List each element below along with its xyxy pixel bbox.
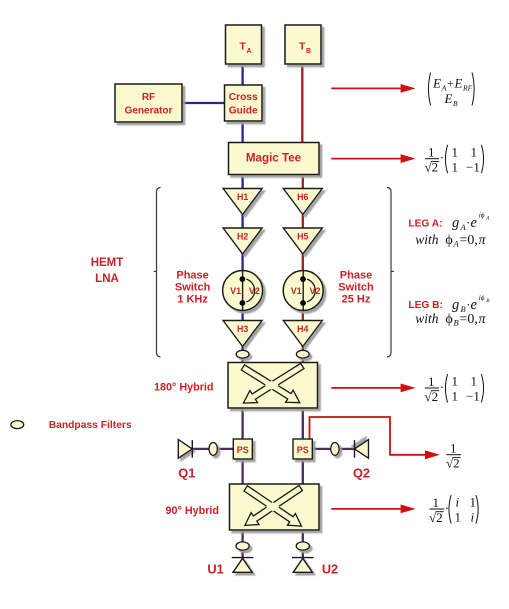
wire PS left to 90 hybrid (purple) — [241, 458, 243, 485]
bandpass filter F3 — [209, 443, 217, 456]
red annotation arrow at TA/TB level — [331, 84, 415, 93]
red annotation arrow at 90 hybrid level — [331, 505, 415, 514]
svg-text:A: A — [485, 215, 490, 221]
svg-text:T: T — [239, 40, 246, 52]
wire filter F3 to PS left (purple) — [218, 448, 235, 450]
box 90 degree hybrid — [230, 484, 320, 530]
amplifier H5 — [283, 228, 322, 254]
wire filter F5 to U1 detector (purple) — [241, 549, 243, 557]
svg-text:Switch: Switch — [175, 282, 211, 294]
amplifier H3 — [223, 321, 262, 347]
wire H6 to H5 (red) — [302, 213, 304, 229]
svg-text:1: 1 — [452, 159, 459, 174]
wire H4 to filter F2 (red) — [302, 345, 304, 352]
phase switch B (25 Hz) with V1 V2 — [283, 271, 323, 311]
svg-text:π: π — [479, 312, 487, 327]
wire RF generator to cross guide (blue) — [181, 102, 225, 104]
svg-text:ϕ: ϕ — [445, 312, 452, 327]
wire H1 to H2 (blue) — [241, 213, 243, 229]
svg-text:i: i — [471, 510, 475, 525]
svg-text:H1: H1 — [237, 192, 248, 202]
formula gB exp(i phi B) — [452, 294, 490, 314]
svg-text:=0,: =0, — [460, 312, 478, 327]
wire PS right to filter F4 (purple) — [312, 448, 332, 450]
svg-text:LEG B:: LEG B: — [408, 300, 443, 311]
svg-text:g: g — [452, 215, 459, 231]
wire filter F2 to 180 hybrid (red) — [302, 356, 304, 364]
svg-text:RF: RF — [462, 84, 473, 93]
svg-text:25 Hz: 25 Hz — [342, 293, 371, 305]
svg-text:Guide: Guide — [229, 106, 258, 117]
box TB (noise source B) — [285, 25, 321, 64]
bandpass filter F6 — [296, 542, 309, 550]
svg-text:A: A — [460, 222, 467, 232]
bandpass filter F5 — [236, 542, 249, 550]
svg-text:1: 1 — [455, 510, 462, 525]
formula 1/sqrt2 times matrix (1 1; 1 -1) at 180 hybrid — [425, 374, 484, 404]
crossed arrow NE-SW inside 180 hybrid — [243, 363, 304, 403]
svg-text:e: e — [471, 297, 478, 313]
wire 180 hybrid to PS right (purple) — [302, 407, 304, 440]
svg-text:1: 1 — [471, 374, 478, 389]
svg-text:1: 1 — [428, 374, 435, 389]
wire PS right to 90 hybrid (purple) — [302, 458, 304, 485]
svg-text:+: + — [447, 76, 454, 90]
detector U2 — [292, 558, 314, 573]
svg-text:−1: −1 — [466, 389, 480, 404]
legend bandpass filter symbol — [11, 421, 24, 429]
wire phase switch A to H3 (blue) — [241, 310, 243, 321]
weave patch at 180 hybrid crossing — [241, 365, 299, 403]
svg-text:Magic Tee: Magic Tee — [246, 152, 302, 165]
red annotation arrow at 180 hybrid level — [331, 384, 415, 393]
formula 1/sqrt2 times matrix (1 1; 1 -1) at magic tee — [425, 144, 484, 174]
svg-text:E: E — [432, 76, 441, 91]
svg-text:H6: H6 — [297, 192, 308, 202]
wire H5 to phase switch B (red) — [302, 253, 304, 271]
svg-text:1: 1 — [452, 389, 459, 404]
formula 1/sqrt2 times matrix (i 1; 1 i) at 90 hybrid — [429, 495, 478, 525]
detector Q2 — [355, 440, 369, 459]
wire 180 hybrid to PS left (purple) — [241, 407, 243, 440]
svg-text:B: B — [453, 99, 458, 108]
svg-text:90° Hybrid: 90° Hybrid — [166, 505, 220, 517]
detector U1 — [232, 558, 254, 573]
svg-text:with: with — [415, 232, 439, 247]
phase switch A (1 KHz) with V1 V2 — [223, 271, 263, 311]
formula vector EA+ERF over EB — [428, 73, 474, 109]
svg-text:i: i — [456, 495, 460, 510]
wire phase switch B to H4 (red) — [302, 310, 304, 321]
svg-text:Phase: Phase — [340, 270, 372, 282]
svg-text:U2: U2 — [322, 562, 338, 577]
svg-text:iϕ: iϕ — [479, 211, 485, 219]
svg-text:HEMT: HEMT — [91, 257, 124, 269]
wire filter F6 to U2 detector (purple) — [302, 549, 304, 557]
wire TA to cross guide (blue) — [241, 63, 243, 86]
crossed arrow NE-SW inside 90 hybrid — [245, 485, 303, 525]
amplifier H1 — [223, 189, 262, 215]
wire filter F1 to 180 hybrid (blue) — [241, 356, 243, 364]
svg-text:·: · — [440, 150, 444, 165]
box PS left (phase shifter) — [233, 439, 252, 459]
wire H3 to filter F1 (blue) — [241, 345, 243, 352]
svg-text:A: A — [453, 239, 460, 249]
svg-text:Switch: Switch — [338, 282, 374, 294]
bracket left of HEMT LNA section — [154, 187, 161, 357]
crossed arrow NW-SE inside 180 hybrid — [241, 365, 299, 403]
svg-text:−1: −1 — [466, 159, 480, 174]
svg-text:1 KHz: 1 KHz — [177, 293, 208, 305]
weave patch at 90 hybrid crossing — [244, 486, 302, 526]
svg-text:Bandpass Filters: Bandpass Filters — [49, 420, 132, 431]
svg-text:ϕ: ϕ — [445, 233, 452, 248]
svg-text:H2: H2 — [237, 232, 248, 242]
label HEMT LNA — [91, 257, 124, 285]
detector Q1 — [178, 440, 192, 459]
svg-text:with: with — [415, 311, 439, 326]
box 180 degree hybrid — [228, 363, 318, 409]
formula with phiA = 0, pi — [415, 232, 486, 249]
amplifier H4 — [283, 321, 322, 347]
svg-text:PS: PS — [237, 445, 249, 455]
svg-text:·: · — [467, 297, 470, 312]
svg-text:·: · — [467, 215, 470, 230]
bandpass filter F2 — [296, 350, 309, 358]
svg-text:Generator: Generator — [125, 106, 173, 117]
svg-text:B: B — [306, 48, 311, 55]
svg-text:PS: PS — [297, 445, 309, 455]
box RF Generator — [115, 84, 182, 122]
wire magic tee to H1 (blue) — [241, 173, 243, 190]
svg-text:180° Hybrid: 180° Hybrid — [154, 381, 214, 393]
svg-text:H3: H3 — [237, 324, 248, 334]
box PS right (phase shifter) — [293, 439, 312, 459]
box Magic Tee — [229, 143, 320, 175]
box TA (noise source A) — [226, 25, 262, 64]
formula gA exp(i phi A) — [452, 211, 490, 232]
wire H2 to phase switch A (blue) — [241, 253, 243, 271]
svg-text:1: 1 — [471, 144, 478, 159]
label Phase Switch 25 Hz — [338, 270, 374, 306]
svg-text:e: e — [471, 215, 478, 231]
svg-text:1: 1 — [452, 144, 459, 159]
arrowhead of elbow annotation — [425, 450, 440, 459]
svg-text:=0,: =0, — [460, 233, 478, 248]
svg-text:A: A — [247, 48, 252, 55]
svg-text:1: 1 — [470, 495, 477, 510]
amplifier H2 — [223, 228, 262, 254]
bracket right of HEMT LNA section — [387, 187, 394, 357]
formula with phiB = 0, pi — [415, 311, 486, 328]
svg-text:Q2: Q2 — [353, 466, 370, 481]
svg-text:H5: H5 — [297, 232, 308, 242]
svg-text:1: 1 — [433, 495, 440, 510]
svg-text:·: · — [440, 379, 444, 394]
svg-text:B: B — [454, 317, 459, 327]
svg-text:E: E — [444, 91, 453, 106]
bandpass filter F1 — [236, 350, 249, 358]
wire magic tee to H6 (red) — [302, 173, 304, 190]
wire cross guide to magic tee (blue) — [241, 120, 243, 144]
wire TB to magic tee (red) — [301, 63, 303, 144]
svg-text:RF: RF — [142, 92, 155, 103]
svg-text:U1: U1 — [207, 562, 223, 577]
svg-text:Q1: Q1 — [178, 466, 195, 481]
box Cross Guide — [225, 85, 263, 121]
svg-text:T: T — [299, 40, 306, 52]
svg-text:LNA: LNA — [95, 273, 119, 285]
wire 90 hybrid to filter F5 (purple) — [241, 529, 243, 543]
red annotation arrow at magic tee level — [331, 154, 415, 163]
svg-text:1: 1 — [452, 374, 459, 389]
svg-text:Phase: Phase — [176, 270, 208, 282]
svg-text:Cross: Cross — [229, 92, 258, 103]
svg-text:π: π — [479, 233, 487, 248]
wire 90 hybrid to filter F6 (purple) — [302, 529, 304, 543]
svg-text:LEG A:: LEG A: — [408, 218, 442, 229]
red elbow line from PS right to 1/sqrt2 annotation — [310, 417, 427, 455]
svg-text:g: g — [452, 297, 459, 313]
svg-text:B: B — [486, 298, 490, 304]
svg-text:1: 1 — [450, 441, 457, 456]
formula 1/sqrt2 at PS level — [446, 441, 461, 471]
crossed arrow NW-SE inside 90 hybrid — [244, 486, 302, 526]
svg-text:H4: H4 — [297, 324, 308, 334]
svg-text:iϕ: iϕ — [479, 294, 485, 302]
wire Q1 detector to filter F3 (purple) — [192, 448, 208, 450]
wire filter F4 to Q2 detector (purple) — [339, 448, 355, 450]
amplifier H6 — [283, 189, 322, 215]
svg-text:1: 1 — [428, 145, 435, 160]
label Phase Switch 1 KHz — [175, 270, 211, 306]
bandpass filter F4 — [331, 443, 339, 456]
svg-text:E: E — [454, 76, 463, 91]
